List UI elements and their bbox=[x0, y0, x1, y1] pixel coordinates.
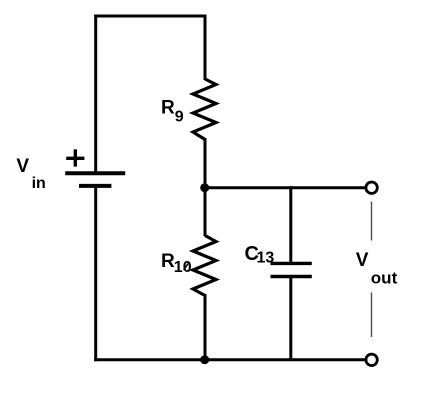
label C13 bbox=[245, 243, 275, 267]
capacitor C13 plates bbox=[271, 263, 312, 276]
svg-text:R: R bbox=[161, 97, 175, 118]
svg-text:V: V bbox=[16, 156, 29, 177]
wire: top horizontal from Vin+ branch to R9 branch bbox=[94, 15, 206, 18]
wire: capacitor C13 top lead from node A wire bbox=[289, 186, 292, 262]
battery V_in positive plate (long) bbox=[65, 171, 125, 175]
wire: bottom horizontal from battery branch to output negative terminal bbox=[94, 358, 365, 361]
svg-text:10: 10 bbox=[174, 259, 192, 276]
output terminal positive (open circle) bbox=[366, 182, 377, 193]
svg-text:out: out bbox=[371, 268, 398, 287]
resistor R9 bbox=[193, 79, 216, 140]
svg-text:13: 13 bbox=[257, 250, 275, 267]
svg-text:in: in bbox=[32, 175, 46, 192]
battery polarity plus sign bbox=[66, 149, 84, 166]
resistor R10 bbox=[193, 236, 216, 296]
battery V_in negative plate (short) bbox=[79, 184, 111, 188]
wire: R10 bottom to node B bbox=[204, 294, 207, 360]
label R9 bbox=[161, 97, 184, 125]
label Vout bbox=[356, 250, 398, 287]
wire: left vertical from top wire down to battery positive plate bbox=[94, 15, 97, 172]
output terminal negative (open circle) bbox=[366, 354, 377, 365]
wire: right vertical from top wire down to R9 bbox=[204, 15, 207, 81]
wire: node A to output positive terminal bbox=[205, 186, 365, 189]
label R10 bbox=[161, 251, 192, 276]
wire: capacitor C13 bottom lead to bottom wire bbox=[289, 278, 292, 361]
wire: node A down to R10 top bbox=[204, 187, 207, 236]
node B junction dot bbox=[200, 355, 209, 364]
svg-text:V: V bbox=[356, 250, 369, 271]
svg-text:9: 9 bbox=[175, 109, 184, 126]
wire: R9 bottom to node A bbox=[204, 138, 207, 188]
wire: thin link from Vout label toward negative terminal bbox=[371, 293, 373, 338]
wire: thin link from positive terminal toward Vout label bbox=[371, 202, 373, 241]
label Vin bbox=[16, 156, 45, 192]
node A junction dot bbox=[200, 183, 209, 192]
wire: left vertical from battery negative plate down to bottom wire bbox=[94, 187, 97, 361]
